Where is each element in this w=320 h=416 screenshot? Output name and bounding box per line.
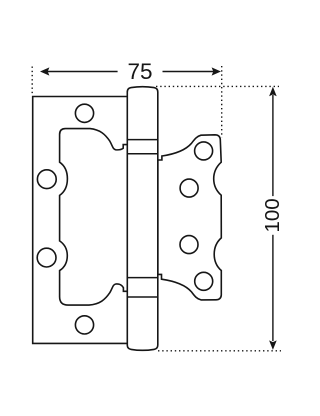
dimension line 75 right segment: [163, 71, 215, 73]
dimension line 100 upper segment: [272, 95, 274, 196]
knuckle joint line bottom 1: [127, 277, 158, 279]
knuckle joint line bottom 2: [127, 296, 158, 298]
extension line left (dotted): [31, 67, 33, 96]
screw hole bottom-middle left leaf: [75, 316, 93, 334]
dimension line 100 lower segment: [272, 235, 274, 341]
arrowhead 100 bottom: [269, 340, 277, 350]
hinge barrel: [127, 87, 158, 351]
arrowhead 100 top: [269, 87, 277, 97]
screw hole right leaf 3: [180, 236, 198, 254]
knuckle joint line top 1: [127, 139, 158, 141]
arrowhead 75 left: [40, 67, 49, 75]
screw hole top-middle left leaf: [75, 104, 93, 122]
screw hole right leaf 1: [195, 142, 213, 160]
left leaf outer rectangle: [33, 97, 129, 344]
extension line top (dotted): [156, 85, 279, 87]
right leaf outline: [158, 135, 222, 300]
screw hole right leaf 2: [180, 179, 198, 197]
left leaf inner decorative contour: [60, 129, 129, 306]
extension line bottom (dotted): [158, 350, 281, 352]
screw hole upper-left: [37, 170, 56, 189]
screw hole right leaf 4: [195, 272, 213, 290]
svg-text:75: 75: [127, 59, 152, 84]
extension line right (dotted): [221, 66, 223, 138]
dimension line 75 left segment: [47, 71, 118, 73]
svg-text:100: 100: [261, 198, 284, 232]
screw hole lower-left: [37, 248, 56, 267]
arrowhead 75 right: [212, 67, 221, 75]
knuckle joint line top 2: [127, 153, 158, 155]
